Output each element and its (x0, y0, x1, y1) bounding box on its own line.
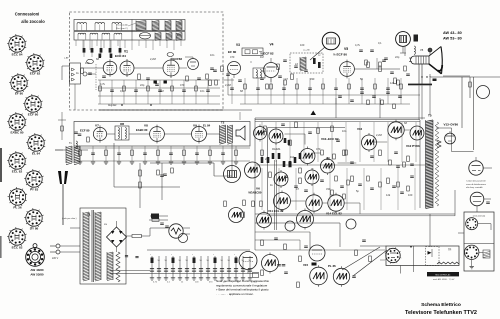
svg-text:V5: V5 (420, 48, 424, 52)
svg-text:½ ECF 80: ½ ECF 80 (333, 52, 347, 56)
svg-text:sono di distribuzione: sono di distribuzione (466, 183, 487, 186)
svg-text:Schema Elettrico: Schema Elettrico (421, 302, 461, 308)
svg-text:AW 43/80: AW 43/80 (30, 268, 44, 272)
svg-text:470: 470 (180, 83, 185, 87)
svg-text:DY 86: DY 86 (30, 226, 39, 230)
svg-text:10n: 10n (200, 89, 205, 93)
svg-text:ECL 82: ECL 82 (12, 169, 23, 173)
svg-text:V3: V3 (236, 43, 240, 47)
svg-text:ca.+80: ca.+80 (303, 50, 310, 52)
svg-text:V5: V5 (344, 47, 348, 51)
svg-text:100: 100 (408, 193, 413, 197)
svg-text:1M: 1M (160, 89, 164, 93)
svg-text:½ ECF 82: ½ ECF 82 (260, 51, 274, 55)
svg-text:PL 36: PL 36 (328, 264, 336, 268)
svg-text:½ECF82: ½ECF82 (171, 57, 182, 61)
svg-text:EABC 80: EABC 80 (10, 130, 23, 134)
svg-text:OA 181: OA 181 (272, 148, 281, 151)
svg-text:V7: V7 (95, 124, 99, 128)
svg-text:· mod. AW. 43/80 · 7,5 kV: · mod. AW. 43/80 · 7,5 kV (432, 278, 455, 281)
svg-text:12k: 12k (390, 81, 395, 85)
svg-text:4,7k: 4,7k (100, 82, 106, 86)
svg-text:1M: 1M (290, 155, 294, 159)
svg-text:22p: 22p (395, 55, 400, 59)
svg-text:330: 330 (310, 77, 315, 81)
svg-text:AW 53– 80: AW 53– 80 (443, 37, 462, 41)
svg-text:Televisore Telefunken TTV2: Televisore Telefunken TTV2 (405, 310, 477, 316)
svg-text:V15: V15 (303, 263, 309, 267)
svg-text:I valori dei parametri: I valori dei parametri (466, 180, 486, 183)
svg-text:10n: 10n (342, 129, 347, 133)
svg-text:(vista dal lato): (vista dal lato) (473, 215, 486, 218)
svg-text:ECC 84: ECC 84 (115, 54, 126, 58)
svg-text:0,1: 0,1 (120, 89, 124, 93)
svg-text:(solo per alim.): (solo per alim.) (62, 217, 77, 220)
svg-text:22p: 22p (265, 157, 270, 161)
svg-text:10n: 10n (210, 53, 215, 57)
svg-text:ECF 80: ECF 80 (80, 129, 90, 133)
svg-text:TR: TR (448, 249, 452, 252)
svg-text:EL 84: EL 84 (203, 124, 211, 128)
svg-text:V16: V16 (357, 127, 363, 131)
svg-text:EF 80: EF 80 (15, 91, 24, 95)
svg-text:330: 330 (326, 187, 331, 191)
svg-text:V10–ECC 82: V10–ECC 82 (321, 137, 339, 141)
svg-text:a.AF: a.AF (64, 57, 69, 60)
svg-text:ECC 84: ECC 84 (12, 52, 23, 56)
svg-text:100: 100 (300, 43, 305, 47)
svg-text:Pos (can.C): Pos (can.C) (116, 28, 128, 30)
svg-text:12k: 12k (386, 193, 391, 197)
svg-text:2,2M: 2,2M (150, 57, 156, 61)
svg-text:EABC 80: EABC 80 (136, 128, 148, 132)
svg-text:V8: V8 (144, 124, 148, 128)
svg-text:allo zoccolo: allo zoccolo (21, 19, 45, 24)
svg-text:ECF 80: ECF 80 (28, 112, 39, 116)
svg-text:220 V: 220 V (52, 257, 59, 260)
svg-text:T2: T2 (221, 121, 225, 125)
svg-text:Pos (can.A): Pos (can.A) (116, 24, 128, 27)
svg-text:· · · –– · · applicare: · · · –– · · applicare un Cresc. (216, 292, 254, 296)
svg-text:EL 84: EL 84 (32, 151, 40, 155)
svg-text:22p: 22p (140, 83, 145, 87)
svg-text:V4: V4 (270, 43, 274, 47)
svg-text:470: 470 (230, 55, 235, 59)
svg-text:4,7k: 4,7k (355, 43, 361, 47)
svg-text:V9: V9 (193, 124, 197, 128)
svg-text:alta freq. variabili: alta freq. variabili (466, 186, 483, 189)
svg-text:V12 PY83: V12 PY83 (406, 144, 420, 148)
svg-text:V11 ECL 82: V11 ECL 82 (268, 209, 284, 213)
svg-text:AW 43– 80: AW 43– 80 (443, 31, 462, 35)
svg-text:Regolaz.: Regolaz. (108, 105, 117, 107)
svg-text:MOD. DI PROT. A.T.: MOD. DI PROT. A.T. (435, 274, 451, 277)
svg-text:RS: RS (104, 224, 108, 226)
svg-text:OR: OR (120, 122, 124, 126)
svg-text:V13–DY86: V13–DY86 (444, 123, 459, 127)
svg-text:100: 100 (85, 61, 90, 65)
svg-text:0,1: 0,1 (378, 41, 382, 45)
svg-text:AW 53/80: AW 53/80 (30, 273, 44, 277)
svg-text:ECF 82: ECF 82 (30, 71, 41, 75)
svg-text:470: 470 (316, 147, 321, 151)
svg-text:1M: 1M (260, 55, 264, 59)
svg-text:E/m: E/m (177, 35, 181, 37)
svg-text:ECC 82: ECC 82 (12, 245, 23, 249)
svg-text:PL 36: PL 36 (13, 205, 21, 209)
svg-text:EF 80: EF 80 (228, 50, 237, 54)
svg-text:½EABC80: ½EABC80 (248, 191, 262, 195)
svg-text:V14 ECL 82: V14 ECL 82 (326, 212, 342, 216)
svg-text:Connessioni: Connessioni (15, 12, 40, 17)
svg-text:PY 83: PY 83 (30, 187, 39, 191)
svg-text:2,2M: 2,2M (376, 133, 382, 137)
